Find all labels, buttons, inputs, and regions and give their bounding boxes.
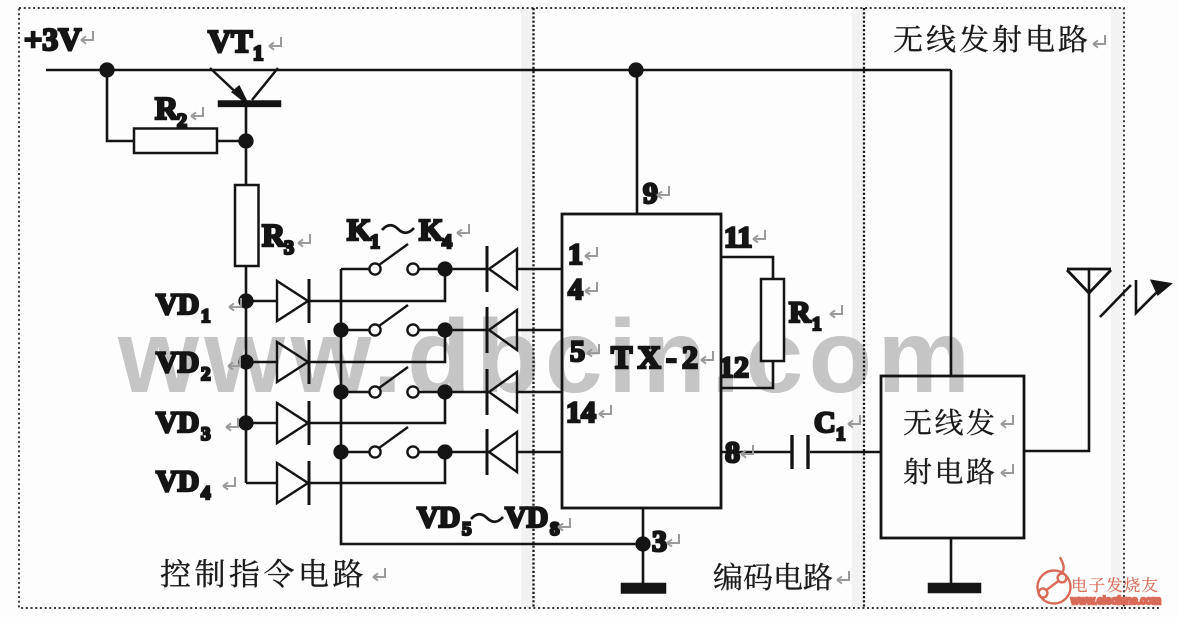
svg-text:K: K: [419, 212, 443, 247]
svg-text:+3V: +3V: [24, 21, 81, 57]
svg-text:4: 4: [442, 231, 452, 253]
svg-text:3: 3: [201, 424, 211, 445]
svg-text:4: 4: [568, 273, 583, 306]
svg-text:8: 8: [550, 519, 560, 540]
svg-text:VD: VD: [505, 501, 548, 534]
svg-text:VD: VD: [156, 406, 199, 439]
svg-text:2: 2: [201, 364, 211, 385]
svg-text:5: 5: [462, 519, 472, 540]
svg-text:9: 9: [643, 177, 658, 210]
svg-text:3: 3: [652, 525, 667, 558]
svg-text:www.elecfans.com: www.elecfans.com: [1070, 595, 1161, 607]
svg-text:K: K: [347, 212, 371, 247]
svg-text:3: 3: [284, 237, 294, 259]
svg-text:VD: VD: [156, 346, 199, 379]
svg-text:1: 1: [812, 314, 822, 335]
svg-text:8: 8: [725, 436, 740, 469]
svg-text:VD: VD: [156, 288, 199, 321]
svg-text:4: 4: [201, 483, 211, 504]
svg-text:1: 1: [836, 424, 846, 445]
svg-text:VD: VD: [156, 465, 199, 498]
svg-text:12: 12: [719, 351, 749, 384]
svg-text:5: 5: [570, 335, 585, 368]
svg-text:1: 1: [370, 231, 380, 253]
svg-text:2: 2: [177, 110, 187, 132]
svg-text:R: R: [789, 296, 811, 329]
svg-text:1: 1: [253, 41, 264, 65]
svg-text:11: 11: [724, 221, 752, 254]
svg-text:R: R: [262, 217, 286, 253]
svg-text:14: 14: [566, 396, 596, 429]
svg-text:VT: VT: [208, 23, 252, 59]
svg-text:R: R: [155, 90, 179, 126]
svg-text:TX-2: TX-2: [611, 339, 698, 375]
svg-text:1: 1: [201, 306, 211, 327]
svg-text:C: C: [814, 406, 836, 439]
svg-text:VD: VD: [417, 501, 460, 534]
svg-text:1: 1: [568, 238, 583, 271]
